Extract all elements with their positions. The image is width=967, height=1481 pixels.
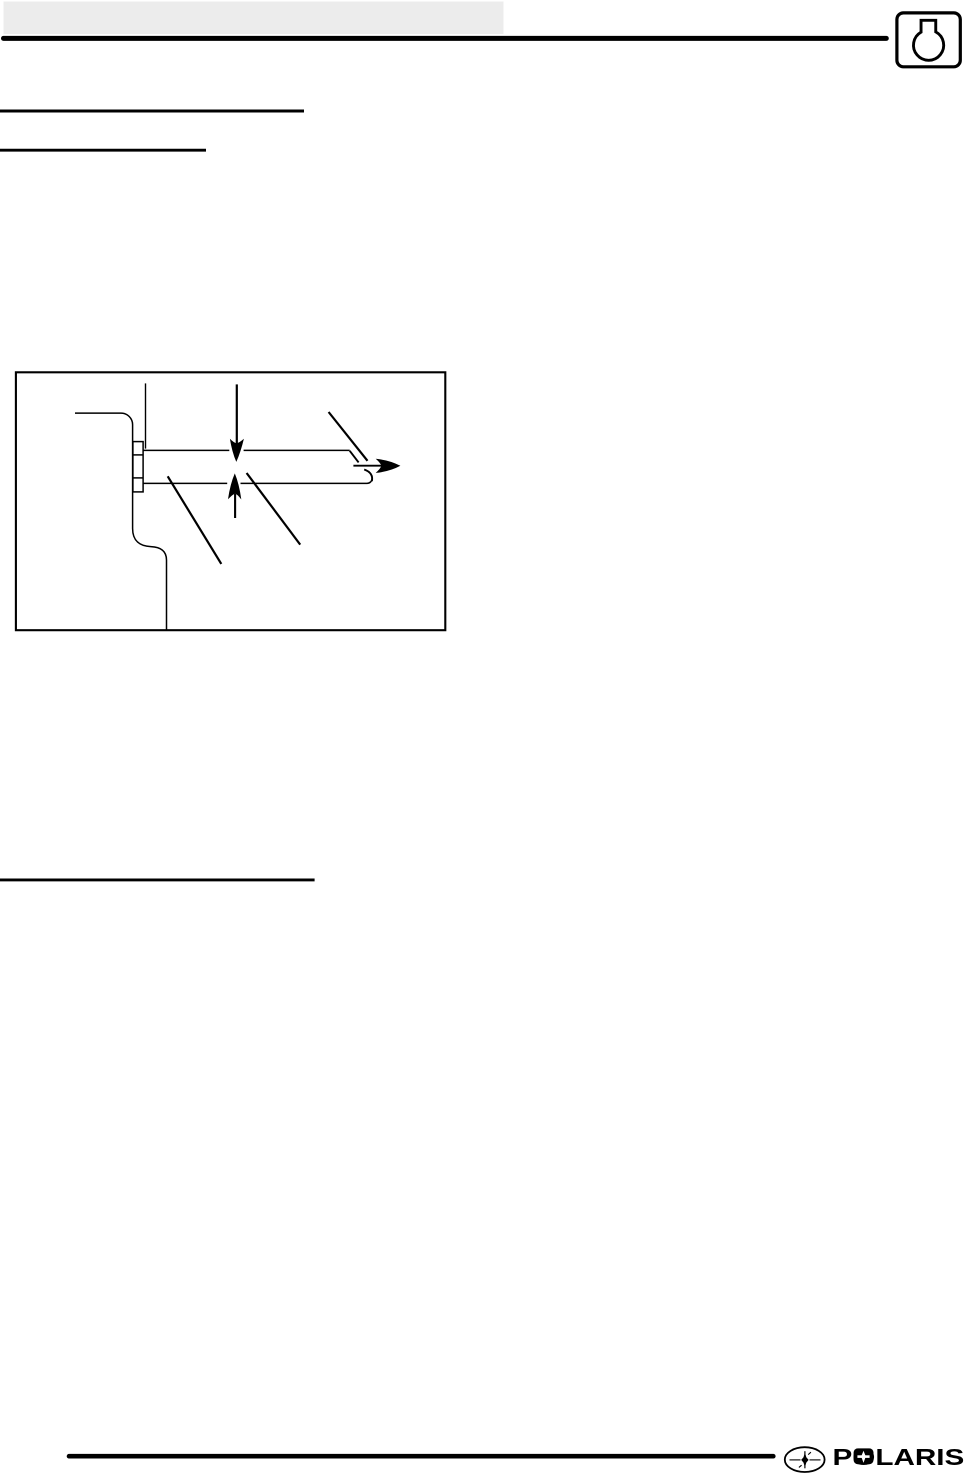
header rule	[4, 36, 887, 41]
polaris ellipse	[785, 1447, 825, 1472]
case edge vertical	[145, 383, 147, 448]
chapter icon frame	[897, 13, 960, 67]
heading underline 1	[0, 110, 304, 113]
leader line lower-left	[168, 476, 222, 564]
shaft end chamfer	[350, 451, 359, 463]
svg-text:POLARIS: POLARIS	[833, 1444, 965, 1470]
leader line lower-middle	[247, 473, 301, 545]
polaris compass star	[790, 1451, 821, 1468]
down arrowhead	[230, 439, 244, 462]
figure frame	[16, 372, 445, 630]
up arrow tail	[234, 494, 236, 518]
section underline	[0, 878, 315, 881]
chapter icon piston-bore symbol	[913, 20, 943, 60]
down arrow tail	[236, 384, 238, 446]
right arrowhead	[376, 459, 401, 473]
footer rule	[69, 1454, 773, 1459]
leader to shaft end	[329, 412, 368, 461]
shaft end inner arc	[364, 470, 372, 482]
crankcase profile	[75, 413, 167, 630]
up arrowhead	[228, 473, 241, 499]
POLARIS wordmark	[833, 1444, 965, 1470]
crankshaft top line	[144, 449, 350, 451]
crankshaft bottom line	[144, 478, 373, 483]
washer stack	[133, 442, 143, 492]
header title bar (gray)	[4, 2, 504, 35]
right arrow tail	[353, 465, 382, 467]
heading underline 2	[0, 149, 206, 152]
